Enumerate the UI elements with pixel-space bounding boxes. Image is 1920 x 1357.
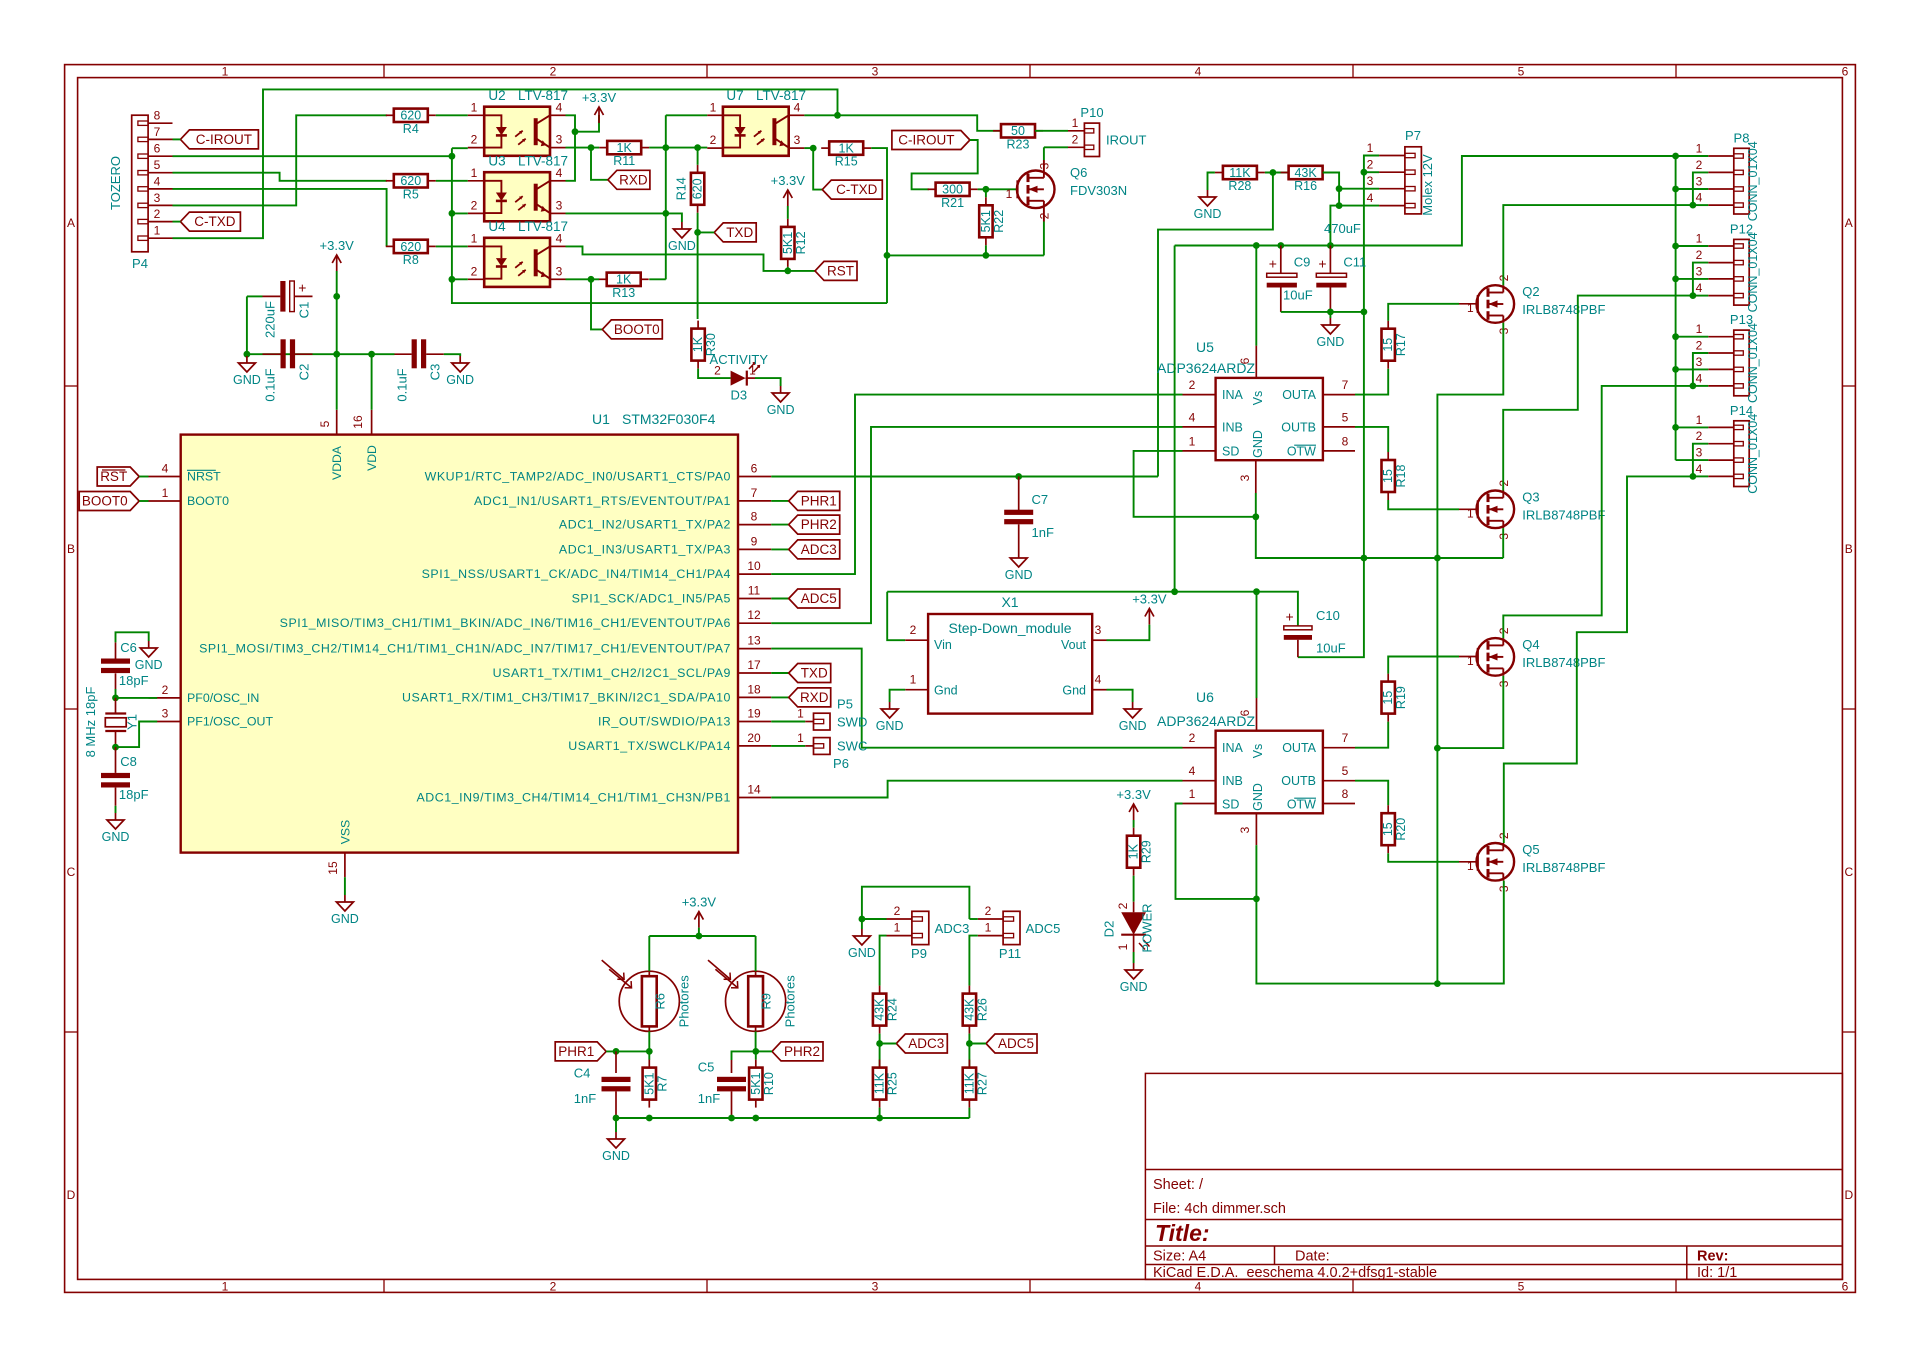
svg-text:5: 5 bbox=[154, 158, 161, 172]
svg-text:C: C bbox=[67, 865, 76, 879]
svg-text:5K1: 5K1 bbox=[979, 210, 993, 232]
connector P6 (SWC) bbox=[814, 738, 831, 755]
wire PA7 to U6 INA bbox=[771, 649, 1182, 748]
wire BOOT0 bbox=[139, 500, 148, 502]
svg-text:GND: GND bbox=[1251, 430, 1265, 458]
ground (bottom rail) bbox=[602, 1132, 630, 1163]
power +3.3V (X1 Vout) bbox=[1132, 592, 1167, 625]
resistor R17 bbox=[1381, 321, 1408, 369]
svg-text:+3.3V: +3.3V bbox=[1132, 592, 1167, 607]
wire bus to pin bbox=[1676, 336, 1709, 338]
P8 pin 2 bbox=[1708, 171, 1734, 173]
svg-text:INB: INB bbox=[1222, 421, 1243, 435]
junction bus bbox=[1672, 366, 1679, 373]
svg-text:15: 15 bbox=[1381, 691, 1395, 705]
wire P9/P11 pin2 tie bbox=[862, 887, 970, 919]
transistor Q6 (FDV303N) bbox=[1006, 160, 1127, 222]
wire Q6 drain bbox=[1043, 147, 1045, 160]
wire R20 to Q5 gate bbox=[1388, 853, 1459, 862]
wire U6 GND / Q5 source bbox=[1256, 845, 1503, 984]
svg-text:R16: R16 bbox=[1294, 179, 1317, 193]
svg-text:R15: R15 bbox=[835, 155, 858, 169]
wire P7.3 bbox=[1339, 188, 1379, 190]
svg-text:+: + bbox=[1286, 609, 1294, 625]
svg-text:220uF: 220uF bbox=[263, 301, 278, 338]
svg-text:1: 1 bbox=[1696, 142, 1703, 156]
global label ADC3 (U1) bbox=[789, 540, 840, 559]
opto right pins bbox=[550, 114, 566, 116]
global label BOOT0 (top) bbox=[602, 320, 662, 339]
P4 pin 4 bbox=[148, 188, 172, 190]
wire U2.4/U3.4 collectors bbox=[566, 115, 576, 181]
svg-text:IRLB8748PBF: IRLB8748PBF bbox=[1522, 860, 1605, 875]
svg-text:3: 3 bbox=[1696, 355, 1703, 369]
junction R11/U7.1 bbox=[662, 144, 669, 151]
wire P4.3 to R4 bbox=[173, 115, 388, 205]
wire U5 GND / sources bbox=[1256, 493, 1503, 558]
wire P13 pins 2/4 to Q4 drain bbox=[1503, 386, 1693, 638]
wire to C-TXD label bbox=[813, 148, 822, 190]
transistor Q5 (IRLB8748PBF) bbox=[1467, 832, 1606, 892]
svg-text:1: 1 bbox=[1006, 187, 1013, 201]
junction collector rail bbox=[572, 128, 579, 135]
svg-text:5: 5 bbox=[1518, 65, 1525, 79]
svg-text:GND: GND bbox=[1120, 980, 1148, 994]
svg-text:GND: GND bbox=[1251, 783, 1265, 811]
svg-text:5: 5 bbox=[318, 420, 332, 427]
junction P7.3 bbox=[1336, 185, 1343, 192]
resistor R12 bbox=[781, 219, 808, 267]
svg-text:C10: C10 bbox=[1316, 608, 1340, 623]
svg-text:4: 4 bbox=[1189, 410, 1196, 424]
junction ADC5 bbox=[966, 1040, 973, 1047]
svg-text:R6: R6 bbox=[652, 993, 667, 1010]
P12 pin 4 bbox=[1708, 295, 1734, 297]
svg-text:Gnd: Gnd bbox=[934, 684, 958, 698]
svg-text:2: 2 bbox=[471, 133, 478, 147]
svg-text:R27: R27 bbox=[975, 1072, 989, 1095]
svg-text:3: 3 bbox=[1367, 174, 1374, 188]
resistor R16 bbox=[1281, 166, 1331, 193]
resistor R26 bbox=[962, 986, 989, 1034]
svg-text:1: 1 bbox=[222, 1279, 229, 1293]
svg-text:7: 7 bbox=[751, 486, 758, 500]
svg-text:1: 1 bbox=[1367, 141, 1374, 155]
svg-text:P10: P10 bbox=[1080, 105, 1103, 120]
wire pin4 bbox=[1693, 475, 1708, 477]
P14 pin 3 bbox=[1708, 459, 1734, 461]
resistor R14 bbox=[675, 165, 705, 213]
svg-text:10uF: 10uF bbox=[1283, 288, 1313, 303]
svg-text:U7: U7 bbox=[726, 88, 743, 103]
svg-text:PHR1: PHR1 bbox=[558, 1044, 594, 1059]
svg-text:1: 1 bbox=[1467, 859, 1474, 873]
wire U4.2 bbox=[452, 278, 468, 280]
svg-text:3: 3 bbox=[1696, 264, 1703, 278]
wire P14 pins 2/4 to Q5 drain bbox=[1504, 476, 1693, 843]
svg-text:USART1_TX/TIM1_CH2/I2C1_SCL/PA: USART1_TX/TIM1_CH2/I2C1_SCL/PA9 bbox=[493, 666, 731, 680]
svg-text:16: 16 bbox=[351, 415, 365, 429]
wire to R29 bbox=[1133, 820, 1135, 828]
svg-text:1: 1 bbox=[1696, 322, 1703, 336]
junction 12V drop bbox=[1171, 588, 1178, 595]
P7 pin 2 bbox=[1379, 171, 1405, 173]
svg-text:GND: GND bbox=[1317, 335, 1345, 349]
global label ADC5 (bottom) bbox=[986, 1034, 1037, 1053]
wire PHR1 bbox=[606, 1050, 649, 1052]
wire R5 to U3.1 bbox=[436, 180, 468, 182]
svg-text:Sheet: /: Sheet: / bbox=[1153, 1177, 1204, 1193]
svg-text:ADC1_IN9/TIM3_CH4/TIM14_CH1/TI: ADC1_IN9/TIM3_CH4/TIM14_CH1/TIM1_CH3N/PB… bbox=[416, 791, 731, 805]
module X1 Step-Down bbox=[928, 614, 1092, 714]
svg-text:1: 1 bbox=[154, 224, 161, 238]
svg-text:ADC3: ADC3 bbox=[801, 542, 837, 557]
svg-text:SD: SD bbox=[1222, 445, 1239, 459]
P12 pin 2 bbox=[1708, 262, 1734, 264]
optocoupler U4 (LTV-817) bbox=[484, 238, 550, 287]
svg-text:+3.3V: +3.3V bbox=[320, 238, 355, 253]
wire to R22 bbox=[985, 189, 987, 197]
svg-text:2: 2 bbox=[471, 198, 478, 212]
junction bus bbox=[1672, 424, 1679, 431]
global label C-TXD (U7) bbox=[822, 180, 882, 199]
svg-text:620: 620 bbox=[400, 240, 421, 254]
svg-text:6: 6 bbox=[1238, 709, 1252, 716]
junction TXD bbox=[694, 229, 701, 236]
wire R21 to Q6 gate bbox=[978, 188, 1017, 190]
P8 pin 3 bbox=[1708, 188, 1734, 190]
svg-text:C5: C5 bbox=[698, 1060, 715, 1075]
svg-text:GND: GND bbox=[331, 912, 359, 926]
svg-text:IRLB8748PBF: IRLB8748PBF bbox=[1522, 507, 1605, 522]
resistor R4 bbox=[386, 109, 436, 136]
svg-text:1: 1 bbox=[222, 65, 229, 79]
wire PA0 / ADC_IN0 bbox=[771, 476, 1158, 478]
svg-text:620: 620 bbox=[400, 174, 421, 188]
svg-text:2: 2 bbox=[714, 364, 721, 378]
wire R23 to P10.1 bbox=[1035, 130, 1068, 132]
wire cathode rail vertical + long horizontal bbox=[452, 148, 887, 303]
svg-text:OUTB: OUTB bbox=[1281, 421, 1316, 435]
global label ADC5 (U1) bbox=[789, 589, 840, 608]
svg-text:1: 1 bbox=[797, 731, 804, 745]
svg-text:PF1/OSC_OUT: PF1/OSC_OUT bbox=[187, 715, 273, 729]
wire pin2 to pin4 bbox=[1693, 353, 1708, 386]
wire bus to pin bbox=[1676, 188, 1709, 190]
svg-text:GND: GND bbox=[876, 719, 904, 733]
svg-text:2: 2 bbox=[550, 1279, 557, 1293]
global label C-TXD (P4 pin2) bbox=[180, 212, 240, 231]
junction R15 net / Q6 source rail bbox=[884, 252, 891, 259]
power +3.3V (U1) bbox=[320, 238, 355, 271]
wire R4 to U2.1 bbox=[436, 114, 468, 116]
svg-text:U6: U6 bbox=[1196, 689, 1214, 705]
svg-text:2: 2 bbox=[162, 683, 169, 697]
svg-text:2: 2 bbox=[1696, 339, 1703, 353]
wire U5 SD tie bbox=[1134, 451, 1256, 517]
svg-text:11: 11 bbox=[748, 584, 761, 598]
svg-text:VSS: VSS bbox=[339, 820, 353, 844]
wire bus to pin bbox=[1676, 368, 1709, 370]
P7 pin 3 bbox=[1379, 188, 1405, 190]
connector P7 (Molex 12V) bbox=[1405, 147, 1422, 214]
svg-text:Rev:: Rev: bbox=[1697, 1249, 1728, 1265]
junction P7.2 bbox=[1361, 169, 1368, 176]
svg-text:5: 5 bbox=[1342, 410, 1349, 424]
junction pins 2/4 bbox=[1690, 202, 1697, 209]
opto right pins bbox=[550, 180, 566, 182]
svg-text:3: 3 bbox=[162, 707, 169, 721]
svg-text:ADC5: ADC5 bbox=[998, 1036, 1034, 1051]
junction VDD bbox=[368, 351, 375, 358]
junction OSC_OUT bbox=[112, 744, 119, 751]
junction C9 bbox=[1277, 242, 1284, 249]
junction U7.3/R15/C-TXD bbox=[810, 145, 817, 152]
junction bus bbox=[1672, 153, 1679, 160]
U1 top/bottom pins bbox=[336, 410, 338, 435]
svg-text:1: 1 bbox=[471, 100, 478, 114]
IC U1 STM32F030F4 bbox=[181, 435, 738, 853]
junction GND rail / Q3 source bbox=[1434, 555, 1441, 562]
svg-text:R19: R19 bbox=[1394, 686, 1408, 709]
svg-text:0.1uF: 0.1uF bbox=[263, 368, 278, 401]
svg-text:R18: R18 bbox=[1394, 464, 1408, 487]
wire U3.3 bbox=[566, 212, 666, 214]
opto right pins bbox=[550, 245, 566, 247]
junction C2 left bbox=[244, 351, 251, 358]
wire +3.3V to VDDA bbox=[336, 271, 338, 410]
svg-text:5: 5 bbox=[1342, 764, 1349, 778]
wire RST to NRST bbox=[139, 476, 148, 478]
wire Q6 source bbox=[1043, 222, 1045, 256]
junction R9/R10/C5 bbox=[752, 1048, 759, 1055]
svg-text:6: 6 bbox=[751, 462, 758, 476]
ground (X1 pin4) bbox=[1119, 702, 1147, 733]
ground (C6) bbox=[135, 641, 163, 672]
wire pin4 bbox=[1693, 385, 1708, 387]
svg-text:Q2: Q2 bbox=[1522, 284, 1539, 299]
title block bbox=[1145, 1073, 1842, 1281]
svg-text:3: 3 bbox=[556, 198, 563, 212]
svg-text:4: 4 bbox=[1696, 371, 1703, 385]
wire R22 bottom bbox=[985, 245, 987, 255]
svg-text:2: 2 bbox=[1116, 902, 1130, 909]
svg-text:BOOT0: BOOT0 bbox=[82, 494, 128, 509]
wire bottom GND rail bbox=[616, 1117, 969, 1119]
svg-text:+3.3V: +3.3V bbox=[682, 895, 717, 910]
LED D2 (POWER) bbox=[1102, 902, 1155, 953]
svg-text:P9: P9 bbox=[911, 946, 927, 961]
global label PHR1 (U1) bbox=[789, 491, 840, 510]
svg-text:1nF: 1nF bbox=[574, 1091, 596, 1106]
svg-text:8 MHz 18pF: 8 MHz 18pF bbox=[83, 687, 98, 758]
svg-text:OUTA: OUTA bbox=[1282, 741, 1316, 755]
ground (R28) bbox=[1194, 190, 1222, 221]
ground (VSS) bbox=[331, 895, 359, 926]
svg-text:1K: 1K bbox=[839, 142, 855, 156]
U7 pins bbox=[707, 114, 723, 116]
wire 12V bus connectors bbox=[1675, 156, 1677, 460]
wire U3.2 bbox=[452, 212, 468, 214]
svg-text:14: 14 bbox=[747, 783, 761, 797]
wire Q3 source bbox=[1502, 528, 1504, 558]
svg-text:2: 2 bbox=[1072, 133, 1079, 147]
svg-text:D: D bbox=[67, 1188, 76, 1202]
wire 3.3V to rail bbox=[698, 928, 700, 936]
wire to GND bbox=[666, 213, 682, 222]
wire pin4 bbox=[1693, 295, 1708, 297]
svg-text:P7: P7 bbox=[1405, 128, 1421, 143]
svg-text:B: B bbox=[67, 542, 75, 556]
svg-text:19: 19 bbox=[747, 707, 761, 721]
wire C3 right bbox=[444, 354, 460, 356]
wire cap gnd rail bbox=[1281, 311, 1364, 313]
junction Q4 source bbox=[1434, 745, 1441, 752]
wire U6 OUTA to R19 bbox=[1355, 722, 1388, 748]
capacitor C1 (220uF) bbox=[263, 280, 313, 338]
svg-text:+3.3V: +3.3V bbox=[582, 90, 617, 105]
wire C6 bottom bbox=[115, 689, 117, 698]
ground (P9) bbox=[848, 929, 876, 960]
svg-text:ADC3: ADC3 bbox=[908, 1036, 944, 1051]
svg-text:Photores: Photores bbox=[783, 975, 798, 1028]
capacitor C9 (10uF) bbox=[1267, 246, 1313, 312]
svg-text:3: 3 bbox=[872, 1279, 879, 1293]
wire OUTB to R18 bbox=[1355, 427, 1388, 452]
junction bus bbox=[1672, 276, 1679, 283]
svg-text:OUTA: OUTA bbox=[1282, 388, 1316, 402]
optocoupler U2 (LTV-817) bbox=[484, 107, 550, 156]
svg-text:FDV303N: FDV303N bbox=[1070, 183, 1127, 198]
wire pin2 to pin4 bbox=[1693, 444, 1708, 477]
svg-text:4: 4 bbox=[556, 100, 563, 114]
wire P7.4 to 12V rail bbox=[1330, 206, 1379, 246]
wire X1 Gnd4 bbox=[1107, 690, 1133, 702]
svg-text:GND: GND bbox=[446, 373, 474, 387]
resistor R15 bbox=[821, 141, 871, 168]
svg-text:4: 4 bbox=[1696, 191, 1703, 205]
svg-text:R10: R10 bbox=[762, 1072, 776, 1095]
connector P11 (ADC5) bbox=[1003, 911, 1020, 944]
svg-text:2: 2 bbox=[550, 65, 557, 79]
junction R22/source rail bbox=[983, 252, 990, 259]
wire R12 bottom bbox=[787, 267, 789, 271]
junction R14 top bbox=[694, 144, 701, 151]
X1 pins bbox=[905, 639, 928, 641]
svg-text:1: 1 bbox=[710, 100, 717, 114]
wire R14 bottom bbox=[697, 213, 699, 233]
svg-text:TXD: TXD bbox=[726, 225, 753, 240]
junction bus bbox=[1672, 186, 1679, 193]
svg-text:INB: INB bbox=[1222, 774, 1243, 788]
wire X1 Gnd1 bbox=[890, 690, 906, 702]
junction U3.3 bbox=[662, 210, 669, 217]
wire C8 to GND bbox=[115, 806, 117, 813]
svg-text:4: 4 bbox=[1367, 191, 1374, 205]
svg-text:5: 5 bbox=[1518, 1279, 1525, 1293]
junction R21/R22 bbox=[983, 186, 990, 193]
junction C5 gnd bbox=[728, 1115, 735, 1122]
P12 pin 3 bbox=[1708, 278, 1734, 280]
svg-text:C8: C8 bbox=[120, 754, 137, 769]
wire to ADC5 label bbox=[969, 1043, 986, 1045]
svg-text:D3: D3 bbox=[730, 388, 747, 403]
svg-text:3: 3 bbox=[1238, 474, 1252, 481]
wire U6 OUTB to R20 bbox=[1355, 781, 1388, 806]
svg-text:Q4: Q4 bbox=[1522, 637, 1539, 652]
svg-text:2: 2 bbox=[1696, 248, 1703, 262]
wire OUTA to R17 bbox=[1355, 369, 1388, 395]
svg-text:R14: R14 bbox=[675, 177, 689, 200]
svg-text:WKUP1/RTC_TAMP2/ADC_IN0/USART1: WKUP1/RTC_TAMP2/ADC_IN0/USART1_CTS/PA0 bbox=[425, 470, 731, 484]
connector P9 (ADC3) bbox=[912, 911, 929, 944]
svg-text:Step-Down_module: Step-Down_module bbox=[949, 620, 1072, 636]
wire R27 gnd bbox=[968, 1108, 970, 1118]
svg-text:9: 9 bbox=[751, 534, 758, 548]
svg-text:SPI1_MOSI/TIM3_CH2/TIM14_CH1/T: SPI1_MOSI/TIM3_CH2/TIM14_CH1/TIM1_CH1N/A… bbox=[199, 642, 731, 656]
junction C2 rail bbox=[333, 351, 340, 358]
svg-text:R4: R4 bbox=[403, 122, 419, 136]
wire +12V rail to X1/C10 bbox=[887, 592, 1298, 626]
crystal Y1 (8 MHz) bbox=[83, 687, 140, 758]
wire PA13 to P5 bbox=[771, 721, 805, 723]
svg-text:SPI1_MISO/TIM3_CH1/TIM1_BKIN/A: SPI1_MISO/TIM3_CH1/TIM1_BKIN/ADC_IN6/TIM… bbox=[280, 616, 731, 630]
ground (opto emitters) bbox=[668, 222, 696, 253]
connector P5 (SWD) bbox=[814, 713, 831, 730]
P7 pin 4 bbox=[1379, 205, 1405, 207]
wire to R10 bbox=[755, 1051, 757, 1059]
svg-text:2: 2 bbox=[985, 904, 992, 918]
svg-text:15: 15 bbox=[326, 861, 340, 875]
wire U6 SD tie bbox=[1176, 804, 1257, 899]
resistor R10 bbox=[749, 1060, 776, 1108]
svg-text:U1: U1 bbox=[592, 411, 610, 427]
resistor R29 bbox=[1127, 828, 1154, 876]
wire R25 gnd bbox=[879, 1108, 881, 1118]
photoresistor R9 (Photores) bbox=[708, 960, 798, 1031]
wire rail to R6 bbox=[648, 936, 650, 971]
P4 pin 3 bbox=[148, 204, 172, 206]
svg-text:Q3: Q3 bbox=[1522, 489, 1539, 504]
wire C-IROUT to R21 bbox=[912, 140, 978, 189]
ground (C3) bbox=[446, 356, 474, 387]
svg-text:U3: U3 bbox=[488, 154, 505, 169]
svg-text:2: 2 bbox=[894, 904, 901, 918]
P13 pin 2 bbox=[1708, 352, 1734, 354]
svg-text:R12: R12 bbox=[794, 231, 808, 254]
P14 pin 1 bbox=[1708, 426, 1734, 428]
wire R6 bottom bbox=[648, 1031, 650, 1051]
svg-text:C-IROUT: C-IROUT bbox=[196, 132, 252, 147]
photoresistor R6 (Photores) bbox=[602, 960, 692, 1031]
ground (D3) bbox=[767, 386, 795, 417]
svg-text:2: 2 bbox=[1696, 158, 1703, 172]
svg-text:8: 8 bbox=[1342, 787, 1349, 801]
junction bus bbox=[1672, 333, 1679, 340]
P14 pin 4 bbox=[1708, 475, 1734, 477]
U1 right pins bbox=[738, 476, 771, 478]
svg-text:Q5: Q5 bbox=[1522, 842, 1539, 857]
wire P11.2 bbox=[969, 918, 977, 920]
wire PHR2 bbox=[756, 1050, 772, 1052]
junction pins 2/4 bbox=[1690, 383, 1697, 390]
svg-text:NRST: NRST bbox=[187, 470, 221, 484]
svg-text:Molex 12V: Molex 12V bbox=[1420, 154, 1435, 216]
wire to RXD label bbox=[591, 148, 608, 180]
ground (C2) bbox=[233, 356, 261, 387]
svg-text:ADC1_IN1/USART1_RTS/EVENTOUT/P: ADC1_IN1/USART1_RTS/EVENTOUT/PA1 bbox=[474, 494, 731, 508]
IC U6 ADP3624ARDZ bbox=[1216, 731, 1323, 814]
